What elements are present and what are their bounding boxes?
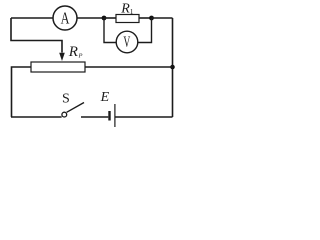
node middle-right junction dot xyxy=(170,65,175,70)
voltmeter V xyxy=(116,31,138,53)
svg-text:R: R xyxy=(68,44,78,60)
battery E positive plate xyxy=(114,104,116,127)
wire switch to battery xyxy=(81,116,108,118)
rheostat RP xyxy=(31,62,85,72)
svg-text:S: S xyxy=(62,92,70,107)
node right junction dot xyxy=(149,16,154,21)
battery E negative plate xyxy=(108,111,110,121)
wire ammeter to node xyxy=(77,17,104,19)
node left junction dot xyxy=(102,16,107,21)
wire voltmeter branch left xyxy=(104,18,116,43)
svg-text:R: R xyxy=(120,2,130,17)
wire voltmeter branch right xyxy=(138,18,152,43)
wire top-left segment xyxy=(11,17,53,19)
wire rheostat right terminal xyxy=(85,66,173,68)
slider arrow of rheostat xyxy=(59,53,65,61)
svg-text:A: A xyxy=(61,10,70,28)
resistor R1 xyxy=(116,15,139,23)
wire R1 to right node xyxy=(139,17,152,19)
svg-text:1: 1 xyxy=(130,7,134,16)
wire battery to bottom-right corner xyxy=(116,116,173,118)
label RP xyxy=(68,44,83,60)
switch S lever xyxy=(67,103,84,113)
wire right vertical xyxy=(172,18,174,117)
ammeter A xyxy=(53,6,77,30)
wire bottom-left segment xyxy=(11,116,62,118)
svg-text:E: E xyxy=(100,90,110,105)
wire node to R1 xyxy=(104,17,116,19)
wire top-left down to slider xyxy=(11,18,62,53)
svg-text:V: V xyxy=(123,32,130,50)
switch S pivot xyxy=(62,112,67,117)
wire rheostat left terminal xyxy=(12,67,32,117)
label R1 xyxy=(120,2,134,17)
wire right node to top-right corner xyxy=(152,17,173,19)
svg-text:P: P xyxy=(78,53,83,60)
